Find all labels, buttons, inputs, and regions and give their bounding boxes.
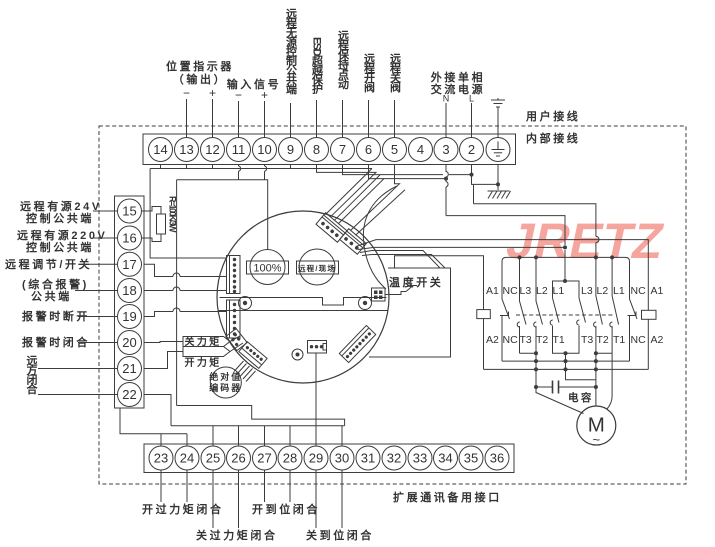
connector J8 right tilted (8 pin) (339, 325, 375, 362)
svg-text:交流电源: 交流电源 (431, 82, 485, 96)
top terminals 14..2 circles (149, 138, 511, 162)
svg-text:远程关阀: 远程关阀 (389, 53, 402, 93)
svg-text:开到位闭合: 开到位闭合 (252, 502, 320, 516)
svg-text:R=100K/3W: R=100K/3W (168, 196, 178, 233)
svg-text:34: 34 (438, 451, 452, 466)
svg-text:2: 2 (468, 142, 475, 157)
L1 common bracket bottom with junction (553, 326, 580, 353)
wire terminal 13 drop (186, 165, 188, 169)
wire 21 to 开力矩 callout (144, 352, 183, 369)
encoder circle 绝对值编码器 (210, 367, 241, 398)
contact NC left (normally closed) (500, 296, 510, 361)
svg-text:电容: 电容 (568, 391, 594, 404)
svg-text:−: − (235, 88, 242, 102)
T1 link down (566, 353, 596, 380)
svg-text:远程有源220V: 远程有源220V (17, 228, 108, 242)
svg-text:位置指示器: 位置指示器 (166, 59, 234, 73)
svg-text:A2: A2 (651, 334, 664, 346)
L1 common bracket top (553, 281, 580, 298)
svg-text:27: 27 (257, 451, 271, 466)
left terminals 15..22 circles (118, 199, 142, 407)
svg-text:L3: L3 (581, 285, 593, 297)
svg-text:T1: T1 (553, 334, 565, 346)
contact L3 right blade (bracket right edge) (577, 298, 586, 325)
mounting plate outline across the circle (220, 298, 387, 306)
svg-text:公共端: 公共端 (31, 289, 72, 303)
bus A cascade into connector J1 (327, 169, 373, 214)
thermal switch symbol (385, 286, 417, 295)
encoder ribbon wires (234, 361, 256, 382)
svg-text:T2: T2 (597, 334, 609, 346)
svg-text:26: 26 (231, 451, 245, 466)
lower-left feeder to terminals 23/24 (120, 408, 187, 446)
wire terminal 5 drop and cascade (351, 165, 400, 231)
screw terminal bottom center (292, 349, 303, 360)
svg-text:L2: L2 (597, 285, 609, 297)
svg-text:33: 33 (413, 451, 427, 466)
dashed boundary box 内部接线 (99, 126, 686, 484)
svg-text:−: − (183, 86, 190, 100)
svg-text:12: 12 (205, 142, 219, 157)
contact L3 left (NO) (517, 296, 526, 353)
wire N feed to L1 bracket (446, 216, 565, 281)
svg-text:开过力矩闭合: 开过力矩闭合 (142, 502, 224, 516)
wire 18 to connector J3 bottom (144, 290, 227, 292)
contact L1 left blade (550, 298, 559, 325)
selector band with 远程/现场 text (297, 261, 339, 274)
plate screw right (359, 297, 372, 310)
svg-text:开力矩: 开力矩 (185, 356, 222, 369)
svg-text:30: 30 (335, 451, 349, 466)
svg-text:A1: A1 (486, 285, 499, 297)
left trunk vertical down to board bottom (176, 180, 178, 406)
svg-text:远程保持/点动: 远程保持/点动 (337, 30, 351, 90)
mechanical interlock dashed line (516, 314, 614, 316)
svg-text:5: 5 (391, 142, 398, 157)
svg-text:9: 9 (287, 142, 294, 157)
bottom terminal strip (144, 444, 514, 473)
wire bundle line C to coil A1R (356, 240, 648, 311)
wire terminal 2 L drop (472, 165, 499, 204)
svg-text:13: 13 (179, 142, 193, 157)
svg-text:32: 32 (387, 451, 401, 466)
svg-text:L: L (469, 94, 474, 104)
svg-text:6: 6 (365, 142, 372, 157)
svg-text:外接单相: 外接单相 (430, 70, 485, 84)
wire bus B 11/10 to indicator (177, 180, 268, 250)
wire terminal 11 drop with hop (239, 165, 241, 180)
PE drop to internal earth (497, 165, 499, 191)
wire terminal 8 drop and cascade (317, 165, 377, 217)
svg-text:内部接线: 内部接线 (526, 131, 580, 145)
wire 20 to 关力矩 callout (144, 342, 183, 343)
drops from bus to terminals 25-30 (213, 426, 342, 446)
svg-text:10: 10 (257, 142, 271, 157)
top terminal strip (143, 134, 516, 165)
L1R column lead (611, 257, 613, 296)
svg-text:NC: NC (631, 285, 647, 297)
svg-text:L2: L2 (536, 285, 548, 297)
svg-text:21: 21 (122, 361, 136, 376)
svg-text:用户接线: 用户接线 (526, 109, 580, 123)
motor feed left diagonal (536, 387, 584, 414)
wire bus A 14/13/12/9 (150, 168, 372, 170)
indicator window 100% circle (250, 250, 285, 285)
svg-text:远程无源控制公共端: 远程无源控制公共端 (285, 8, 299, 95)
svg-text:8: 8 (313, 142, 320, 157)
svg-text:远程/现场: 远程/现场 (298, 263, 336, 273)
wire terminal 12 drop (212, 165, 214, 169)
svg-text:T2: T2 (536, 334, 548, 346)
contactor bottom labels row (486, 334, 664, 346)
connector J9 temperature switch 2-pin at circle right edge (372, 288, 386, 301)
connector J5 torque switch tilted (bottom-left of circle) (226, 328, 247, 350)
capacitor symbol (536, 381, 596, 394)
connector J7 bottom-center (3 pin) (308, 341, 327, 354)
svg-text:11: 11 (232, 142, 246, 157)
connector J3 left vertical (7 pin) (227, 256, 241, 294)
coil K1 (A1/A2 left) (477, 310, 491, 319)
connector J6 encoder tilted (5 pin) (239, 342, 267, 369)
svg-text:T3: T3 (581, 334, 593, 346)
connector J1 top-left tilted (4 pin) (316, 213, 347, 242)
svg-text:JRETZ: JRETZ (502, 213, 669, 269)
wire bundle line E into temp box top (360, 251, 440, 269)
wire terminal 10 drop with hop (265, 165, 267, 180)
contactor top labels row (486, 285, 664, 297)
svg-text:35: 35 (464, 451, 478, 466)
contact L2 right (NO) (594, 296, 603, 387)
connector J4 left vertical (6 pin) (227, 300, 241, 338)
wire 22 down to bottom bus (144, 395, 171, 426)
wire bundle line F into temp box top (362, 255, 445, 269)
svg-text:远程有源24V: 远程有源24V (20, 199, 102, 213)
left feeder from bus A to connector J3 (150, 169, 226, 259)
svg-text:温度开关: 温度开关 (389, 275, 443, 289)
svg-text:14: 14 (153, 142, 167, 157)
svg-text:29: 29 (309, 451, 323, 466)
JRETZ red watermark logo (502, 213, 669, 269)
wire terminal 7 drop and cascade (taps L) (335, 165, 472, 221)
svg-text:T1: T1 (613, 334, 625, 346)
plate screw left (239, 297, 252, 310)
svg-text:28: 28 (283, 451, 297, 466)
wire terminal 9 drop joins bus A (290, 165, 292, 169)
svg-text:A2: A2 (486, 334, 499, 346)
svg-text:+: + (261, 88, 268, 102)
extra cascade stub to connector J2 (356, 190, 406, 236)
motor M circle (577, 406, 616, 445)
board bottom path to terminal bus (177, 406, 345, 426)
svg-text:+: + (209, 86, 216, 100)
svg-text:19: 19 (122, 309, 136, 324)
svg-text:L1: L1 (553, 285, 565, 297)
svg-text:L1: L1 (613, 285, 625, 297)
svg-text:23: 23 (154, 451, 168, 466)
svg-text:3: 3 (442, 142, 449, 157)
svg-text:ESD超越保护: ESD超越保护 (311, 37, 325, 95)
wire J7 connector down to bus (315, 353, 317, 426)
big arc wire to temperature switch connector (363, 186, 397, 289)
coil K2 (A1/A2 right) (642, 310, 657, 319)
svg-text:7: 7 (339, 142, 346, 157)
svg-text:编码器: 编码器 (209, 382, 242, 393)
svg-text:100%: 100% (253, 263, 281, 275)
svg-text:N: N (443, 94, 450, 104)
svg-text:L3: L3 (520, 285, 532, 297)
left terminal strip (115, 196, 145, 408)
svg-text:17: 17 (122, 257, 136, 272)
L2L column lead (535, 257, 537, 296)
wire 19 to connector J4 (144, 312, 227, 317)
leader wires from left labels to terminals (38, 211, 118, 395)
svg-text:25: 25 (206, 451, 220, 466)
svg-text:控制公共端: 控制公共端 (26, 211, 94, 225)
contactor top bus NC-L3-L2 / L2-L1-NC (502, 257, 630, 296)
wire 17 to connector J3 (144, 264, 227, 276)
svg-text:控制公共端: 控制公共端 (26, 240, 94, 254)
svg-text:4: 4 (417, 142, 424, 157)
svg-text:18: 18 (122, 283, 136, 298)
bottom distribution bus (171, 425, 345, 427)
svg-text:（输出）: （输出） (173, 72, 227, 86)
motor feed right (607, 353, 612, 409)
contact L2 left (NO) (534, 296, 543, 387)
torque callout 开力矩 (183, 343, 243, 369)
torque callout 关力矩 (183, 335, 240, 348)
svg-text:A1: A1 (651, 285, 664, 297)
svg-text:20: 20 (122, 335, 136, 350)
svg-text:NC: NC (631, 334, 647, 346)
bottom link T2R-T1R (596, 352, 612, 354)
svg-text:扩展通讯备用接口: 扩展通讯备用接口 (393, 490, 502, 504)
svg-text:31: 31 (361, 451, 375, 466)
wire terminal 14 drop (160, 165, 162, 169)
svg-text:22: 22 (122, 387, 136, 402)
svg-text:T3: T3 (520, 334, 532, 346)
wire L feed to L2R column (474, 204, 600, 296)
hop on 17 wire over left trunk (173, 273, 180, 277)
L3L column lead (519, 257, 521, 296)
svg-text:远程开阀: 远程开阀 (363, 53, 376, 93)
main control board circle (217, 211, 389, 383)
wire A1L coil feed from temp box (395, 256, 484, 310)
svg-text:关到位闭合: 关到位闭合 (306, 528, 374, 542)
external earth symbol above PE (491, 98, 505, 107)
internal earth hatched symbol (488, 191, 511, 199)
wire terminal 3 N drop (446, 165, 448, 216)
selector window 远程/现场 circle (299, 249, 335, 285)
connector J2 top tilted (3 pin) (340, 229, 367, 255)
indicator band with 100% text (247, 261, 289, 274)
motor feed center (595, 387, 597, 406)
bottom terminals 23..36 circles (149, 446, 509, 470)
PE terminal ground glyph inside circle (492, 142, 505, 157)
bottom link T3L-T2L (520, 352, 537, 354)
svg-text:36: 36 (490, 451, 504, 466)
svg-text:~: ~ (593, 432, 601, 447)
leader wires from bottom terminals to labels (161, 470, 342, 528)
svg-text:NC: NC (503, 285, 519, 297)
bus coil return A2 (484, 368, 649, 370)
wire terminal 6 drop and cascade (taps N) (339, 165, 447, 224)
contact L1 right (NO) (610, 296, 619, 353)
contact NC right (normally closed) (628, 295, 638, 362)
svg-text:关过力矩闭合: 关过力矩闭合 (196, 528, 278, 542)
svg-text:远方闭合: 远方闭合 (25, 355, 38, 395)
leader wires from top labels to terminals (187, 99, 499, 138)
resistor R=100K/3W between 15 and 16 (142, 207, 166, 242)
svg-text:24: 24 (180, 451, 194, 466)
svg-text:绝对值: 绝对值 (209, 371, 242, 382)
bus NC return (502, 360, 630, 362)
svg-text:15: 15 (122, 204, 136, 219)
svg-text:(综合报警): (综合报警) (22, 277, 89, 291)
temperature switch box (right of circle) (369, 268, 451, 357)
wire bundle line D to L1 node (358, 247, 565, 249)
svg-text:16: 16 (122, 231, 136, 246)
svg-text:NC: NC (503, 334, 519, 346)
